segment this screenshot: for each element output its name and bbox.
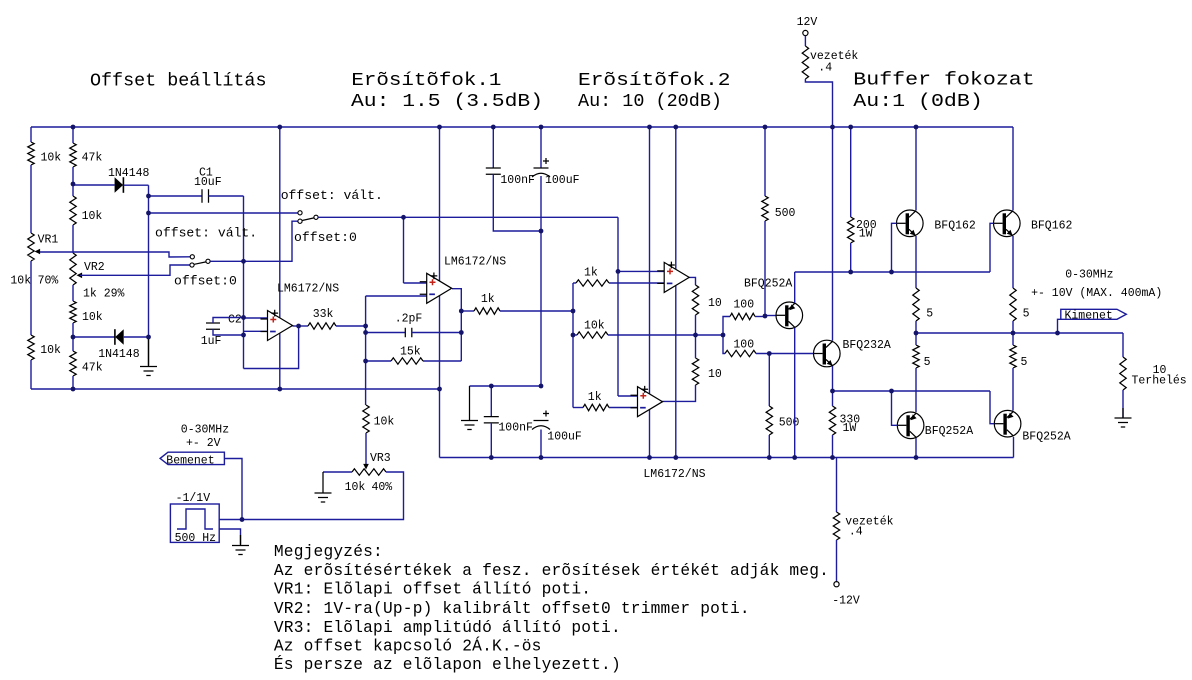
junction (573,335) [571,333,576,338]
wire to VR3 wiper [365,433,367,464]
junction (916,333) [914,331,919,336]
wire Q1 base [765,315,776,317]
junction (769.3,353.5) [767,351,772,356]
svg-text:Au: 10 (20dB): Au: 10 (20dB) [578,91,722,112]
wire Q3 emitter [915,236,917,288]
resistor vezeték .4 (negative lead) [833,512,839,540]
ground [461,386,478,430]
resistor 200 1W [848,217,854,243]
terminal 12V [803,30,808,35]
junction (794.7,457.5) [792,455,797,460]
junction (850.7,127) [848,125,853,130]
wire [1012,368,1014,411]
ground [232,535,249,555]
wire 100nF-1 bottom [493,174,541,231]
wire U4 output [661,385,696,401]
op-amp U3 LM6172/NS [664,262,689,292]
resistor 10k lower-mid [70,301,76,323]
junction (461.3,311) [459,309,464,314]
svg-text:offset:0: offset:0 [174,273,237,288]
switch S1 (SPDT offset select) [194,262,206,264]
svg-text:C2: C2 [228,314,242,327]
wire to 100 (2) [723,335,725,354]
svg-text:100nF: 100nF [498,421,533,434]
svg-text:5: 5 [924,356,931,369]
svg-text:BFQ252A: BFQ252A [925,425,973,438]
ground [315,472,332,502]
wire C2 bottom to U1 -in node [213,329,244,335]
junction (73,127) [71,125,76,130]
ground [140,337,157,376]
svg-text:BFQ252A: BFQ252A [1022,431,1070,444]
capacitor 100uF (2) electrolytic [534,420,549,422]
svg-text:10k: 10k [374,416,395,429]
square wave glyph [177,509,213,529]
svg-text:offset:0: offset:0 [294,230,357,245]
svg-text:100nF: 100nF [500,174,535,187]
wire 100uF-1 bottom to y386 [540,176,542,386]
wire Q4 base down [990,223,994,272]
wire Q2 emitter down [832,366,834,391]
svg-text:.4: .4 [818,62,832,75]
wire [755,316,765,318]
wire 500 bottom top-lead [768,354,770,407]
wire to 100 (1) [723,317,730,336]
junction (243.5,335) [241,333,246,338]
svg-text:LM6172/NS: LM6172/NS [277,283,339,296]
resistor 33k [308,323,336,329]
junction (403.5,217.3) [401,215,406,220]
junction (365.6,332.5) [363,330,368,335]
svg-text:500: 500 [775,207,796,220]
transistor Q4 BFQ162 (NPN) [994,210,1021,237]
wire [836,540,838,582]
svg-text:VR1: VR1 [38,234,59,247]
wire 1k bottom left [573,407,583,409]
junction (279.8,389) [277,387,282,392]
resistor 10k bottom-left [28,335,34,360]
capacitor 100uF (1) electrolytic [534,167,549,169]
wire 1k bottom right [609,407,638,409]
wire 500 top [764,127,766,196]
svg-text:VR3: VR3 [370,452,391,465]
junction (439.5,389) [437,387,442,392]
wire [72,376,74,389]
wire S2 pole rail y=217 [318,216,618,218]
svg-text:Buffer fokozat: Buffer fokozat [853,70,1034,91]
wire U1 feedback [244,326,299,369]
wire U1 -in [244,330,269,332]
junction (850.7,272) [848,270,853,275]
svg-text:5: 5 [1023,308,1030,321]
junction (461.3,332.5) [459,330,464,335]
wire 1k right [500,310,573,312]
junction (649.5,127) [647,125,652,130]
diode 1N4148 lower [115,329,124,344]
wire [764,221,766,317]
junction (675.8,127) [673,125,678,130]
wire U3 output [689,277,695,285]
junction (891.5,272) [889,270,894,275]
junction (242,519.5) [240,517,245,522]
wire U2 output down [452,289,461,361]
svg-text:0-30MHz: 0-30MHz [181,424,229,437]
svg-text:BFQ232A: BFQ232A [843,339,891,352]
svg-text:33k: 33k [313,308,334,321]
wire [850,243,852,272]
wire vertical x=148 [148,185,150,365]
svg-text:Erõsítõfok.1: Erõsítõfok.1 [351,70,501,91]
svg-text:10k: 10k [82,311,103,324]
resistor 100 (Q2 base) [725,350,756,356]
svg-text:+- 10V (MAX. 400mA): +- 10V (MAX. 400mA) [1031,287,1162,300]
wire 200 top [850,127,852,217]
input flag Bemenet [160,452,224,464]
svg-text:LM6172/NS: LM6172/NS [643,468,705,481]
svg-text:Kimenet: Kimenet [1065,310,1113,323]
wire vertical x=618 [617,217,619,396]
svg-text:15k: 15k [400,346,421,359]
wire .2pF right [412,332,462,334]
junction (279.8,127) [277,125,282,130]
junction (765,127) [763,125,768,130]
svg-text:10k: 10k [82,210,103,223]
wire Q5 emitter down [915,438,917,458]
svg-text:10uF: 10uF [194,176,222,189]
junction (832.5,391) [830,389,835,394]
potentiometer VR3 10k 40% [352,469,386,475]
junction (73,337) [71,335,76,340]
svg-text:40%: 40% [372,481,393,494]
svg-text:1k: 1k [481,293,495,306]
wire [768,435,770,458]
svg-text:47k: 47k [82,152,103,165]
junction (618,271.4) [616,269,621,274]
wire .2pF left [366,332,406,334]
junction (541,231) [539,229,544,234]
wire diode D2 cathode side [73,336,115,338]
wire S1 pole to node [210,260,243,262]
wire diode D1 anode [73,184,115,186]
wire VR1 wiper to switch S1 throw A [40,252,190,257]
wire 1k top left [573,282,576,284]
wire [695,335,697,358]
resistor 10 (U4 out) [692,358,698,385]
resistor 5 (Q5 collector) [913,345,919,368]
svg-text:BFQ162: BFQ162 [1031,220,1073,233]
svg-text:1k: 1k [584,266,598,279]
svg-text:VR3: Elõlapi amplitúdó állító: VR3: Elõlapi amplitúdó állító poti. [274,619,621,637]
wire load top [1122,333,1124,357]
wire 1k top right [609,282,664,284]
junction (491.3,386) [489,384,494,389]
wire Q1 emitter up [794,272,796,303]
resistor 10k top-left [28,142,34,165]
svg-text:100uF: 100uF [547,430,582,443]
junction (916,127) [914,125,919,130]
wire [72,127,74,143]
resistor 500 (lower) [766,406,772,435]
wire [72,225,74,253]
junction (148.5,196) [146,194,151,199]
junction (243.5,317.5) [241,315,246,320]
VR1 wiper arrow [35,249,41,255]
wire Q4 collector [1012,127,1014,211]
junction (723,335) [721,333,726,338]
svg-text:.2pF: .2pF [395,312,423,325]
diode 1N4148 upper [115,177,124,192]
svg-text:10k: 10k [345,481,366,494]
wire 12V rail to Q2 collector [832,127,834,341]
svg-text:Az offset kapcsoló 2Á.K.-ös: Az offset kapcsoló 2Á.K.-ös [274,637,542,656]
wire 100uF-1 top [540,127,542,168]
svg-text:10: 10 [708,297,722,310]
wire 15k right [423,360,461,362]
op-amp U4 LM6172/NS [638,387,663,417]
wire Q3 collector [915,127,917,211]
svg-text:vezeték: vezeték [810,50,858,63]
wire U1 supply vertical x=280 [279,127,281,389]
resistor 10k (to VR3) [363,405,369,433]
svg-text:Bemenet: Bemenet [166,455,214,468]
output flag Kimenet [1061,309,1127,319]
wire [123,184,148,186]
svg-text:12V: 12V [797,16,818,29]
junction (365.6,361) [363,359,368,364]
svg-text:1k 29%: 1k 29% [83,288,125,301]
resistor 5 (Q3 emitter) [913,288,919,321]
svg-text:Erõsítõfok.2: Erõsítõfok.2 [578,70,731,91]
wire [30,127,32,142]
wire [439,389,441,458]
svg-text:10k: 10k [40,344,61,357]
junction (916,457.5) [914,455,919,460]
svg-text:LM6172/NS: LM6172/NS [444,256,506,269]
svg-text:+- 2V: +- 2V [186,437,221,450]
wire 10k mid right [608,334,723,336]
wire y=386 decoupling node [470,385,542,387]
wire Bemenet to node [224,459,242,520]
wire [804,36,806,46]
wire [72,167,74,196]
junction (649.5,457.5) [647,455,652,460]
svg-text:47k: 47k [82,362,103,375]
junction (365.6,326) [363,324,368,329]
wire node vertical x=573 [572,283,574,408]
resistor 1k (U3 -in) [576,280,609,286]
wire bias rail y=272 [795,271,990,273]
svg-text:-1/1V: -1/1V [176,492,211,505]
wire supply vertical x=649.5 [649,127,651,458]
resistor 500 (upper) [762,196,768,221]
junction (148.5,337) [146,335,151,340]
junction (832.5,457.5) [830,455,835,460]
svg-text:offset: vált.: offset: vált. [281,188,383,203]
wire to C1 [149,195,203,197]
junction (1013,333) [1011,331,1016,336]
wire to switch S2 throw A [149,212,298,214]
junction (832.5,127) [830,125,835,130]
wire 10k mid left [573,334,577,336]
svg-text:VR2: 1V-ra(Up-p) kalibrált off: VR2: 1V-ra(Up-p) kalibrált offset0 trimm… [274,600,750,618]
switch S2 (SPDT offset select) [302,218,314,221]
resistor 10k (mid) [577,332,608,338]
junction (148.5,213) [146,211,151,216]
svg-text:100: 100 [733,339,754,352]
svg-text:70%: 70% [38,274,59,287]
svg-text:BFQ252A: BFQ252A [744,278,792,291]
transistor Q6 BFQ252A (PNP) [994,410,1021,437]
op-amp U2 LM6172/NS [427,273,452,303]
potentiometer VR1 10k 70% [28,233,34,261]
wire [1012,321,1014,333]
junction (573,311) [571,309,576,314]
svg-text:És persze az elõlapon elhelyez: És persze az elõlapon elhelyezett.) [274,655,621,674]
wire [832,435,834,458]
junction (493.3,127) [491,125,496,130]
resistor 100 (Q1 base) [730,313,755,319]
wire [30,261,32,335]
junction (298.6,326) [296,324,301,329]
wire source upper output [219,519,242,521]
wire source lower to ground [219,529,240,545]
wire U2 -in node vertical x=365.6 [365,296,367,405]
svg-text:100uF: 100uF [545,174,580,187]
wire supply vertical x=675.8 [675,127,677,458]
svg-text:Az erõsítésértékek a fesz. erõ: Az erõsítésértékek a fesz. erõsítések ér… [274,562,829,580]
wire node to switch S2 throw B [244,221,298,261]
wire Q6 emitter down [1013,437,1015,458]
junction (695.5,335) [693,333,698,338]
wire Kimenet tap [1058,319,1061,333]
wire S2 node down to U2 +in [403,217,405,283]
VR3 wiper arrow [363,464,369,470]
wire +12V top rail [31,126,1013,128]
junction (73,389) [71,387,76,392]
wire [832,391,834,406]
svg-text:offset: vált.: offset: vált. [155,226,257,241]
wire [1012,333,1014,345]
svg-text:1N4148: 1N4148 [98,348,140,361]
svg-text:VR2: VR2 [84,261,105,274]
resistor 1k (U4 -in) [583,404,609,410]
wire VR3 right lead to source [242,472,404,520]
svg-text:0-30MHz: 0-30MHz [1065,269,1113,282]
wire [72,285,74,301]
wire [695,315,697,335]
wire 100nF-1 top [492,127,494,168]
wire [336,325,366,327]
capacitor 100nF (2) [484,417,499,423]
resistor 330 1W [829,406,835,435]
svg-text:1W: 1W [843,422,857,435]
junction (439.5,127) [437,125,442,130]
wire [30,165,32,233]
resistor 15k [391,358,423,364]
svg-text:10: 10 [708,368,722,381]
capacitor C2 1uF [206,323,220,329]
capacitor .2pF [405,328,412,338]
op-amp U1 LM6172/NS [268,311,293,341]
transistor Q3 BFQ162 (NPN) [897,210,924,237]
wire U2 +in [404,282,428,284]
wire 15k left [366,360,391,362]
ground [1115,408,1132,427]
wire [915,333,917,345]
svg-text:500 Hz: 500 Hz [175,532,216,545]
wire U2 -in [366,295,427,297]
wire [124,336,149,338]
svg-text:.4: .4 [849,526,863,539]
wire U3 +in [618,270,664,272]
wire [72,323,74,351]
junction (541,386) [539,384,544,389]
junction (541,457.5) [539,455,544,460]
wire U4 +in [618,395,638,397]
wire 1k left [461,310,474,312]
junction (1057.5,333) [1055,331,1060,336]
wire to Q2 base [756,353,813,355]
wire [1122,390,1124,418]
svg-text:10k: 10k [10,274,31,287]
transistor Q5 BFQ252A (PNP) [897,412,924,439]
signal source box -1/1V 500 Hz [170,504,219,542]
svg-text:5: 5 [926,308,933,321]
wire C2 top to U1 +in node [213,318,244,324]
wire [915,368,917,412]
svg-text:500: 500 [779,416,800,429]
resistor 10k upper-mid [70,196,76,225]
junction (891.5,391) [889,389,894,394]
svg-text:100: 100 [733,298,754,311]
wire left section bottom rail [31,388,440,390]
svg-text:10k: 10k [41,152,62,165]
VR2 wiper arrow [77,273,83,279]
terminal -12V [834,582,839,587]
svg-text:Terhelés: Terhelés [1132,375,1187,388]
svg-text:Offset beállítás: Offset beállítás [90,71,267,92]
wire Q4 emitter [1012,236,1014,288]
svg-text:1k: 1k [588,391,602,404]
wire 100nF-2 top [490,386,492,417]
wire vertical x=243.5 [243,196,245,369]
junction (491.3,457.5) [489,455,494,460]
wire [915,321,917,333]
svg-text:VR1: Elõlapi offset állító pot: VR1: Elõlapi offset állító poti. [274,581,591,599]
wire Q3 base down [892,223,897,272]
transistor Q1 BFQ252A (PNP driver) [776,302,803,329]
svg-text:Au:1 (0dB): Au:1 (0dB) [853,91,983,112]
wire bias rail y=391 [833,390,991,392]
wire 100nF-2 bottom [490,423,492,458]
junction (765,316) [763,314,768,319]
wire output rail y=333 [916,332,1123,334]
wire 100uF-2 bottom [540,430,542,458]
svg-text:1W: 1W [859,228,873,241]
wire Q6 base [990,391,994,424]
wire -12V leg [836,458,838,513]
svg-text:Megjegyzés:: Megjegyzés: [274,543,383,561]
wire U1 output [293,325,309,327]
svg-text:Au: 1.5 (3.5dB): Au: 1.5 (3.5dB) [351,91,543,112]
wire [365,404,367,406]
capacitor C1 10uF [202,189,209,202]
svg-text:5: 5 [1021,356,1028,369]
resistor 47k lower [70,351,76,376]
resistor vezeték .4 (supply lead) [802,46,808,79]
wire [209,195,244,197]
resistor 47k upper [70,143,76,167]
